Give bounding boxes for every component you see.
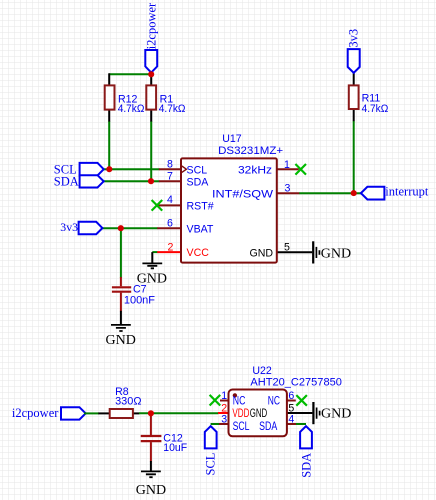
svg-text:GND: GND — [250, 407, 268, 420]
wire pin 4 to SDA port — [296, 423, 306, 425]
svg-text:2: 2 — [167, 241, 173, 253]
svg-text:1: 1 — [284, 159, 290, 171]
svg-text:GND: GND — [321, 247, 351, 262]
no-connect X U22 pin 1 — [210, 395, 221, 406]
wire i2cpower port to R8 — [84, 412, 99, 414]
ground right of U22 pin 5 — [313, 402, 319, 424]
wire R11 down to interrupt net — [353, 121, 355, 194]
svg-text:5: 5 — [288, 402, 294, 414]
svg-text:GND: GND — [106, 333, 136, 348]
wire 3v3 port to pin 6 — [100, 227, 158, 229]
junction 3v3/C7 — [118, 225, 124, 231]
port 3v3 left — [79, 222, 103, 234]
port i2cpower bottom — [61, 407, 86, 419]
wire i2cpower top horizontal — [109, 73, 151, 75]
op IC U17 body — [181, 158, 277, 262]
ground under C12 — [141, 461, 161, 477]
wire R1 bottom lead — [150, 109, 152, 122]
junction SCL/R12 — [106, 166, 112, 172]
svg-text:4.7kΩ: 4.7kΩ — [118, 103, 145, 115]
wire SCL port to pin 8 — [101, 168, 160, 170]
pin 3 stub — [218, 423, 229, 425]
wire R12 to SCL net — [108, 122, 110, 170]
ground right of pin 5 — [313, 241, 319, 263]
svg-text:U22: U22 — [252, 365, 272, 377]
resistor R12 — [105, 85, 115, 109]
svg-text:GND: GND — [137, 271, 167, 286]
svg-text:NC: NC — [268, 395, 280, 408]
sensor IC U22 body — [229, 390, 287, 437]
pin 2 stub VCC — [157, 251, 181, 253]
svg-text:VCC: VCC — [187, 247, 210, 259]
svg-text:VBAT: VBAT — [187, 223, 214, 235]
port SCL left — [80, 163, 104, 176]
svg-text:4.7kΩ: 4.7kΩ — [159, 103, 186, 115]
wire R11 bottom lead — [353, 109, 355, 121]
svg-text:AHT20_C2757850: AHT20_C2757850 — [250, 376, 342, 388]
wire SDA port to pin 7 — [101, 180, 160, 182]
port 3v3 top right — [348, 49, 360, 73]
port SDA bottom — [300, 426, 312, 448]
ground under C7 — [111, 311, 131, 331]
svg-text:6: 6 — [288, 390, 294, 402]
svg-text:SCL: SCL — [233, 420, 250, 433]
svg-text:3: 3 — [221, 414, 227, 426]
pin 4 stub — [287, 423, 298, 425]
no-connect X pin 1 — [295, 164, 306, 175]
svg-text:4: 4 — [288, 414, 294, 426]
svg-text:U17: U17 — [222, 133, 242, 145]
capacitor C7 — [112, 277, 131, 311]
svg-text:SCL: SCL — [204, 453, 218, 476]
port interrupt — [361, 187, 385, 200]
svg-text:SDA: SDA — [187, 176, 210, 188]
svg-text:GND: GND — [136, 483, 166, 498]
svg-text:10uF: 10uF — [163, 442, 187, 454]
pin 6 stub — [157, 227, 181, 229]
svg-text:SDA: SDA — [300, 453, 314, 478]
pin 1 stub U22 — [220, 400, 229, 402]
svg-text:4: 4 — [167, 194, 173, 206]
svg-text:GND: GND — [249, 247, 273, 259]
pin 4 stub — [157, 204, 181, 206]
port i2cpower top — [145, 50, 157, 73]
pin 8 stub — [159, 168, 182, 170]
svg-text:7: 7 — [167, 171, 173, 183]
svg-text:8: 8 — [167, 159, 173, 171]
svg-text:i2cpower: i2cpower — [12, 406, 59, 420]
wire R1 to SDA net — [150, 122, 152, 182]
svg-text:100nF: 100nF — [124, 295, 156, 307]
svg-text:DS3231MZ+: DS3231MZ+ — [218, 145, 283, 157]
pin 7 stub — [159, 180, 182, 182]
svg-text:NC: NC — [233, 395, 246, 408]
svg-text:INT#/SQW: INT#/SQW — [212, 188, 273, 200]
svg-text:3v3: 3v3 — [60, 220, 78, 234]
wire 3v3 net down to C7 — [120, 228, 122, 278]
wire pin 3 to interrupt port — [299, 192, 361, 194]
wire R11 top lead — [353, 72, 355, 86]
svg-text:330Ω: 330Ω — [115, 395, 141, 407]
wire R8 right lead — [133, 412, 140, 414]
junction R8/C12 — [148, 410, 154, 416]
svg-text:GND: GND — [321, 406, 351, 421]
svg-text:SDA: SDA — [54, 175, 79, 189]
pin 3 stub — [277, 192, 300, 194]
pin 1 stub — [277, 168, 299, 170]
svg-text:RST#: RST# — [187, 201, 214, 213]
svg-text:VDD: VDD — [232, 407, 249, 420]
pin 2 stub VDD — [218, 412, 229, 414]
svg-text:3v3: 3v3 — [347, 29, 361, 48]
svg-text:1: 1 — [221, 390, 227, 402]
resistor R8 — [110, 409, 133, 418]
junction interrupt/R11 — [351, 190, 357, 196]
pin 5 stub GND — [277, 251, 313, 253]
no-connect X U22 pin 6 — [296, 395, 307, 406]
svg-text:interrupt: interrupt — [385, 185, 429, 199]
resistor R11 — [349, 85, 359, 109]
wire R1 top lead — [150, 74, 152, 86]
svg-text:32kHz: 32kHz — [238, 164, 272, 176]
wire R8 to U22 pin 2 — [139, 412, 218, 414]
pin 5 stub GND — [287, 412, 313, 414]
wire R12 bottom lead — [108, 109, 110, 122]
wire pin 3 to SCL port — [211, 423, 219, 425]
wire VCC pin 2 to ground — [152, 251, 157, 253]
no-connect X pin 4 — [152, 200, 163, 211]
svg-text:2: 2 — [221, 402, 227, 414]
junction i2cpower/R1 — [148, 71, 154, 77]
svg-text:i2cpower: i2cpower — [144, 2, 158, 49]
svg-text:3: 3 — [284, 183, 290, 195]
resistor R1 — [146, 85, 156, 109]
ground under pin 2 VCC — [142, 252, 162, 268]
pin 6 stub — [287, 400, 296, 402]
capacitor C12 — [141, 413, 162, 461]
svg-text:5: 5 — [284, 242, 290, 254]
wire R12 top lead — [108, 73, 110, 86]
svg-text:6: 6 — [167, 218, 173, 230]
port SCL bottom — [205, 426, 217, 448]
svg-text:4.7kΩ: 4.7kΩ — [362, 103, 389, 115]
junction SDA/R1 — [148, 178, 154, 184]
port SDA left — [80, 175, 104, 187]
svg-text:SDA: SDA — [259, 420, 277, 433]
wire R8 left lead — [98, 412, 110, 414]
svg-text:SCL: SCL — [187, 164, 208, 176]
clock mark pin 8 — [182, 166, 187, 172]
pin 1 marker dot U22 — [233, 393, 237, 397]
